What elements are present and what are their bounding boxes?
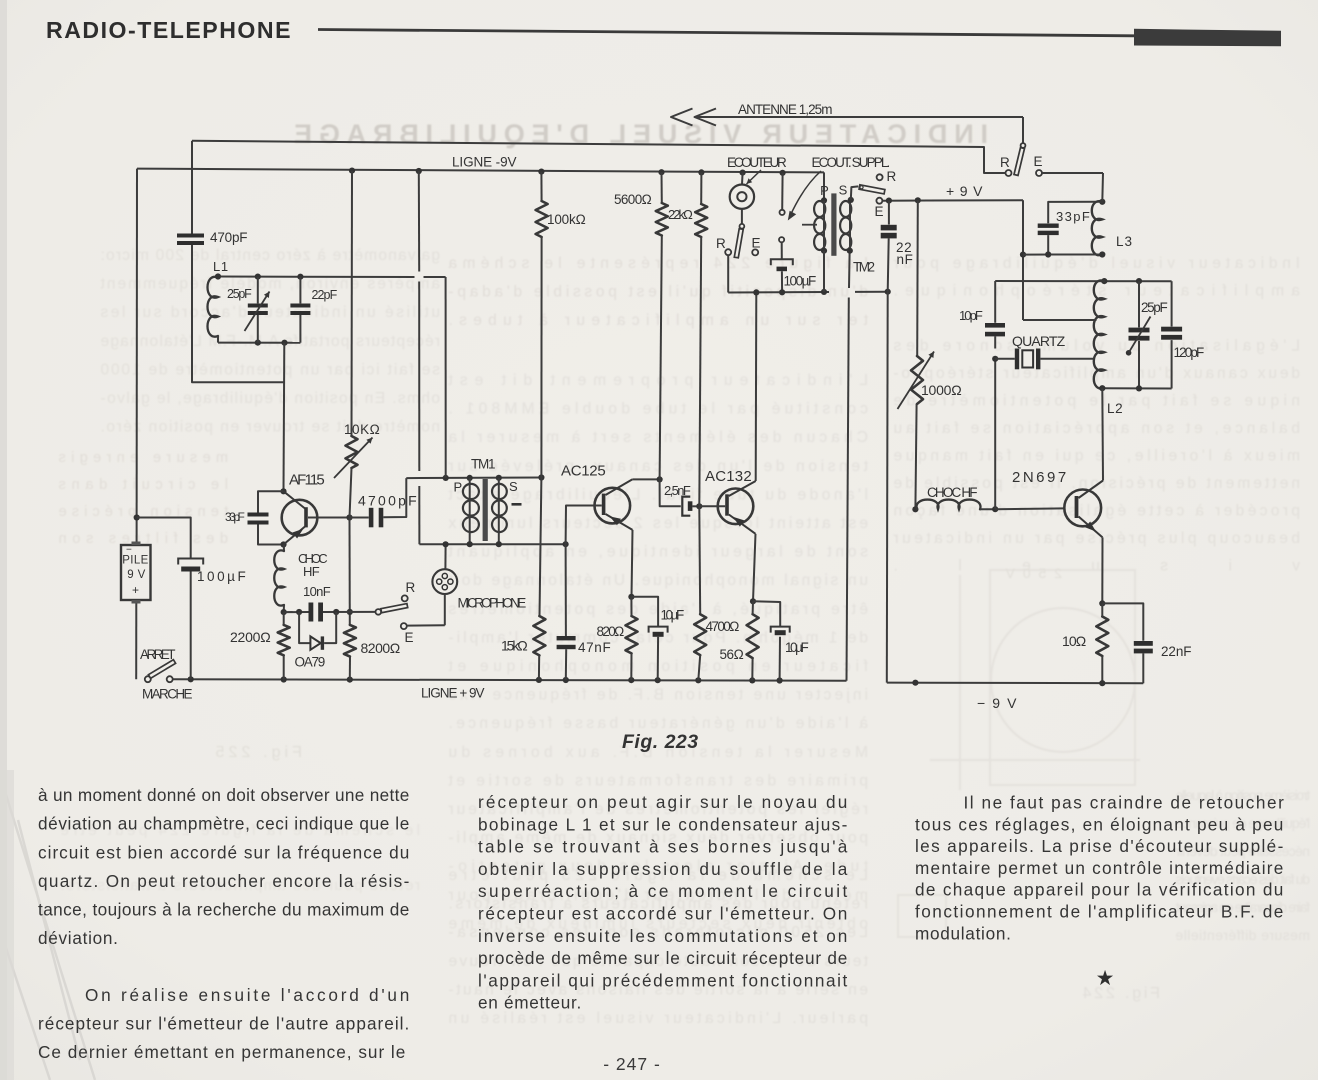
wire 33pF2 lower (1047, 235, 1049, 254)
svg-text:★: ★ (1096, 967, 1115, 990)
svg-text:R: R (1000, 155, 1010, 170)
switch S3 blade (381, 604, 408, 613)
node rail/ecouteur (740, 170, 746, 176)
resistor 10Ω (1096, 617, 1108, 657)
node L2 top (1101, 278, 1107, 284)
switch S1 contact R (1006, 170, 1012, 176)
wire 2200 bottom (283, 655, 285, 679)
node tank top 25pF (255, 274, 261, 280)
node tank bottom drop (281, 340, 287, 346)
capacitor 10µF no2 (771, 627, 790, 633)
node L2 bottom (1099, 385, 1105, 391)
jack contact upper (780, 210, 785, 215)
wire 22nF1 bottom lead (888, 238, 889, 291)
wire 25pF top lead (257, 277, 259, 304)
wire quartz left lead (995, 358, 1015, 360)
svg-text:10nF: 10nF (303, 584, 331, 599)
svg-text:Il ne faut pas craindre d: Il ne faut pas craindre de retoucher (964, 793, 1285, 813)
capacitor 47nF (557, 636, 576, 640)
node rail+/56 (749, 677, 755, 683)
node diode left (296, 609, 302, 615)
svg-text:un signal monophonique. Un: un signal monophonique. Un étalonnage do… (448, 572, 868, 589)
wire 47nF bottom (565, 649, 567, 680)
diode OA79 (310, 636, 320, 649)
wire 5600 lower (660, 236, 662, 480)
wire 2N697 emitter lead (1101, 537, 1103, 603)
node tank top 22pF (297, 274, 303, 280)
node TM1 top/vertB (443, 475, 449, 481)
svg-text:l'appareil qui précédemmen: l'appareil qui précédemment fonctionnait (478, 970, 848, 990)
svg-text:4700Ω: 4700Ω (706, 619, 740, 634)
switch S3 pivot (376, 609, 382, 615)
wire L2 bottom rail (1102, 387, 1171, 389)
svg-text:+ 9 V: + 9 V (946, 183, 983, 199)
node tank bottom 25pF (255, 340, 261, 346)
svg-text:Ce dernier émettant en permane: Ce dernier émettant en permanence, sur l… (38, 1042, 406, 1062)
svg-text:Fig. 223: Fig. 223 (622, 731, 699, 753)
node rail+/10uF2 (777, 677, 783, 683)
switch S4 contact a (145, 676, 151, 682)
node AF115 collector (280, 488, 286, 494)
switch S2 blade (734, 229, 743, 258)
switch S1 contact E (1036, 170, 1042, 176)
wire 10K from rail (351, 171, 354, 436)
wire 47nF top (565, 544, 567, 636)
node rail/vertA (416, 168, 422, 174)
node rail/5600 (658, 169, 664, 175)
node AC125 coll/5600 (657, 476, 663, 482)
wire 4700pF to TM1 corner (383, 478, 406, 517)
wire 100k upper (540, 172, 542, 201)
svg-text:se fait ici par un potent: se fait ici par un potentiomètre de 1000 (100, 361, 440, 378)
node TM1 bot/S (496, 541, 502, 547)
wire 100k mid (540, 237, 542, 478)
resistor 10KΩ (346, 436, 358, 468)
wire TM1 bottom rail (419, 543, 565, 545)
wire 25pF bottom lead (257, 315, 259, 343)
svg-text:AC132: AC132 (705, 468, 752, 485)
svg-text:8200Ω: 8200Ω (361, 640, 401, 656)
svg-text:On réalise ensuite l'accord: On réalise ensuite l'accord d'un (85, 985, 410, 1005)
svg-text:TM2: TM2 (853, 260, 876, 275)
wire left drop to C1 (191, 141, 193, 234)
svg-text:ter sur un amplificateur à: ter sur un amplificateur à tubes. (448, 312, 868, 329)
wire 22pF bottom lead (299, 315, 301, 343)
switch S2 contact E (752, 249, 758, 255)
node TM2 P top (821, 197, 827, 203)
wire mid rail segment1 (728, 291, 829, 294)
svg-text:galvanomètre à zéro central de: galvanomètre à zéro central de 200 micro… (100, 247, 440, 264)
node AC132 emitter (750, 598, 756, 604)
switch S2 pivot (740, 224, 745, 229)
svg-text:+: + (132, 583, 140, 597)
svg-text:470pF: 470pF (210, 230, 248, 245)
svg-text:obtenir la suppression du: obtenir la suppression du souffle de la (478, 859, 848, 879)
wire E to microphone (407, 624, 445, 626)
svg-text:superréaction; à ce mome: superréaction; à ce moment le circuit (478, 881, 848, 901)
svg-text:RADIO-TELEPHONE: RADIO-TELEPHONE (46, 17, 292, 43)
svg-text:P: P (454, 480, 463, 495)
wire antenna to corner (695, 116, 1023, 118)
wire 4700 top (698, 506, 701, 614)
net +9V rail (882, 199, 1023, 202)
node 10nF left (281, 609, 287, 615)
wire jack drop (781, 173, 783, 210)
node quartz/10pF (992, 356, 998, 362)
svg-text:tous ces réglages, en éloi: tous ces réglages, en éloignant peu à pe… (915, 814, 1284, 834)
svg-text:P: P (820, 183, 829, 198)
svg-text:33pF: 33pF (225, 510, 245, 524)
wire 15k bottom (538, 655, 540, 680)
capacitor 22nF no1 (881, 225, 897, 231)
svg-text:E: E (405, 630, 415, 645)
wire AC125 base (566, 506, 602, 545)
capacitor 120pF (1161, 327, 1182, 332)
wire rail+ up to TM2 S upper (848, 253, 851, 288)
svg-text:120pF: 120pF (1174, 345, 1205, 360)
wire battery to switch (135, 604, 137, 680)
node mid rail/-9Vdrop (885, 289, 891, 295)
transformer TM2 P winding (814, 201, 825, 217)
header black bar (1134, 29, 1281, 47)
node 25pF2 bottom (1136, 385, 1142, 391)
svg-text:− 9 V: − 9 V (977, 695, 1017, 711)
transistor AC125 (595, 488, 631, 524)
resistor 5600Ω (656, 203, 668, 236)
switch S4 blade (148, 660, 175, 679)
svg-text:ECOUTEUR: ECOUTEUR (727, 155, 787, 170)
wire L2 to collector (1101, 388, 1104, 480)
capacitor 25pF no2 (1129, 328, 1150, 333)
wire 33pF2 branch (1048, 202, 1102, 224)
svg-text:H F: H F (303, 564, 320, 579)
svg-text:10pF: 10pF (959, 308, 983, 323)
pot arrow 1000 (898, 352, 935, 410)
svg-text:22pF: 22pF (312, 288, 338, 302)
wire 5600 upper (661, 172, 663, 203)
wire 22pF top lead (299, 277, 301, 304)
wire 10Ω top (1101, 603, 1103, 616)
node rail/jack (780, 170, 786, 176)
svg-text:TM1: TM1 (471, 457, 497, 472)
wire 8200 top (349, 518, 351, 625)
earphone ECOUTEUR (730, 185, 754, 209)
crystal QUARTZ (1015, 349, 1019, 370)
wire pot upper (916, 200, 919, 356)
svg-text:circuit est bien accordé sur l: circuit est bien accordé sur la fréquenc… (38, 842, 410, 862)
svg-text:100µF: 100µF (784, 274, 817, 289)
net LIGNE +9V rail (173, 679, 847, 680)
resistor 8200Ω (344, 625, 356, 657)
node TM1 bot/mic (443, 541, 449, 547)
pot arrow 10K (334, 438, 373, 479)
wire AC125 emitter lead (632, 530, 633, 597)
svg-text:ohms. En position d'équilib: ohms. En position d'équilibrage, le galv… (100, 390, 440, 407)
coil CHOC HF no2 (917, 500, 981, 510)
svg-text:déviation au champmètre, ceci: déviation au champmètre, ceci indique qu… (38, 814, 410, 834)
node rail+/8200 (347, 677, 353, 683)
TM1 polarity dash (512, 503, 522, 506)
wire earphone to pivot (741, 209, 743, 224)
svg-text:E: E (752, 236, 762, 251)
svg-text:2,5nF: 2,5nF (664, 483, 691, 498)
header rule (318, 30, 1134, 36)
svg-text:mentaire permet un contrôle: mentaire permet un contrôle intermédiair… (915, 858, 1284, 878)
capacitor 22pF (290, 304, 310, 308)
switch S5 pivot hole (860, 186, 863, 189)
svg-text:10KΩ: 10KΩ (344, 422, 380, 437)
transformer TM1 core (483, 479, 488, 541)
wire L2 top rail (995, 280, 1171, 282)
svg-text:R: R (406, 580, 416, 595)
wire mic bottom (444, 594, 446, 625)
svg-text:LIGNE -9V: LIGNE -9V (452, 155, 517, 170)
wire vertA mid (418, 282, 420, 472)
svg-text:nomètre doit se trouver en: nomètre doit se trouver en position zéro… (100, 419, 440, 436)
wire quartz right lead (1040, 358, 1095, 360)
node 25pF top (1136, 278, 1142, 284)
wire 820 bottom (630, 653, 632, 680)
wire TM2 P top lead (823, 172, 825, 200)
node tank top L1 (215, 273, 221, 279)
svg-text:les appareils. La prise d': les appareils. La prise d'écouteur suppl… (915, 836, 1284, 856)
wire 15k upper (540, 478, 542, 617)
svg-text:E: E (875, 204, 885, 219)
callout arrow ecouteur (747, 170, 762, 184)
svg-text:25pF: 25pF (1141, 300, 1168, 315)
wire mic top (444, 544, 446, 569)
wire TM1 top rail (406, 477, 541, 480)
svg-text:15kΩ: 15kΩ (501, 638, 528, 654)
node AC125 emitter/820 (628, 594, 634, 600)
wire 100uF1 to rail (190, 572, 192, 680)
node TM1 top/P (467, 475, 473, 481)
wire 120pF top (1171, 281, 1173, 326)
wire tank to AF115 collector (283, 343, 286, 492)
node rail+/2200 (281, 676, 287, 682)
svg-text:L1: L1 (213, 259, 229, 274)
wire +9V drop (1022, 200, 1024, 320)
node 2N697 base node (992, 506, 998, 512)
node L3 rail/+9V (1020, 252, 1026, 258)
wire 10uF1 bottom (657, 637, 659, 680)
wire 22nF1 top lead (888, 201, 890, 225)
resistor 1000Ω pot (911, 356, 923, 404)
wire tank bottom rail (218, 342, 300, 344)
transistor 2N697 (1064, 490, 1101, 527)
svg-text:100µF: 100µF (197, 569, 246, 584)
svg-text:déviation.: déviation. (38, 928, 119, 948)
node base/10K junction (346, 514, 352, 520)
wire +9V tap to L2 (1023, 319, 1097, 321)
transistor AC132 (718, 489, 754, 525)
wire left border (136, 169, 138, 545)
transformer TM1 P winding (463, 484, 479, 499)
svg-text:à l'aide d'un générateur b: à l'aide d'un générateur basse fréquence… (448, 715, 868, 732)
svg-text:820Ω: 820Ω (597, 624, 625, 639)
node +9V/22nF (886, 198, 892, 204)
wire rail+ up to TM2 S lower (847, 298, 849, 681)
svg-text:nF: nF (897, 252, 914, 267)
node border/100uF (134, 514, 140, 520)
node 10nF rail/8200 (347, 609, 353, 615)
wire 10uF2 branch (753, 601, 780, 626)
switch S2 contact R (725, 249, 731, 255)
svg-text:5600Ω: 5600Ω (614, 192, 652, 207)
battery PILE 9V (121, 545, 151, 600)
node choke left (912, 506, 918, 512)
node -9V/pot (912, 680, 918, 686)
wire L1 bottom stub (217, 336, 219, 343)
node rail/22k (698, 169, 704, 175)
wire 22k lower / base drop (700, 172, 702, 204)
coil L3 (1092, 201, 1103, 255)
node TM1 top/100k (538, 474, 544, 480)
svg-text:PILE: PILE (122, 555, 149, 567)
svg-text:E: E (1034, 154, 1044, 169)
switch S3 contact E (401, 623, 407, 629)
wire pot lower (915, 404, 916, 509)
svg-text:10µF: 10µF (785, 640, 809, 655)
wire 56 top (752, 601, 754, 614)
svg-text:injecter une tension B.F.: injecter une tension B.F. de fréquence f… (448, 687, 868, 704)
wire vertA upper (418, 171, 420, 272)
svg-text:procède de même sur le circuit: procède de même sur le circuit récepteur… (478, 948, 848, 968)
node diode right (333, 609, 339, 615)
transistor AF115 (282, 500, 318, 536)
node rail+/10uF1 (655, 677, 661, 683)
wire S top to pivot (851, 186, 859, 200)
wire 22nF2 branch (1102, 603, 1143, 640)
svg-text:CHOC HF: CHOC HF (927, 485, 978, 500)
svg-text:mesure différentielle: mesure différentielle (1175, 927, 1310, 943)
svg-text:2N697: 2N697 (1012, 469, 1067, 486)
wire TM2 P tap stub (802, 224, 817, 226)
wire 820 top (630, 597, 632, 616)
svg-text:25pF: 25pF (227, 287, 252, 301)
capacitor 10pF (985, 323, 1005, 328)
capacitor 2,5nF (682, 497, 690, 516)
svg-text:table se trouvant à ses b: table se trouvant à ses bornes jusqu'à (478, 837, 848, 857)
node AF115 emitter (280, 541, 286, 547)
wire 33pF1 to emitter node (258, 525, 284, 545)
svg-text:bobinage L 1 et sur le co: bobinage L 1 et sur le condensateur ajus… (478, 814, 848, 834)
wire C1 to tank corner (192, 245, 284, 382)
svg-text:R: R (887, 169, 897, 184)
svg-text:récepteur est accordé sur: récepteur est accordé sur l'émetteur. On (478, 904, 848, 924)
wire 25pF2 bottom lead (1138, 341, 1140, 388)
wire 2.5nF to base node (692, 505, 699, 507)
svg-text:de chaque appareil pour la: de chaque appareil pour la vérification … (915, 880, 1284, 900)
capacitor 25pF trimmer (248, 304, 268, 308)
resistor 56Ω (747, 614, 759, 658)
svg-text:récepteur sur l'émetteur de l': récepteur sur l'émetteur de l'autre appa… (38, 1014, 410, 1034)
svg-text:- 247 -: - 247 - (603, 1054, 661, 1074)
svg-text:2200Ω: 2200Ω (230, 629, 271, 645)
resistor 820Ω (626, 616, 638, 653)
svg-text:1000Ω: 1000Ω (921, 382, 962, 398)
wire choke2 to base node (980, 508, 995, 510)
coil L1 (208, 277, 219, 337)
svg-text:10Ω: 10Ω (1062, 633, 1087, 649)
svg-text:tance, toujours à la recherche: tance, toujours à la recherche du maximu… (38, 900, 410, 920)
wire 2200 top (283, 612, 285, 625)
wire antenna drop (1022, 117, 1024, 144)
wire 100uF2 bottom (781, 271, 783, 292)
jack contact lower (779, 237, 784, 242)
wire AC132 collector lead (755, 293, 758, 481)
node rail/10K (349, 168, 355, 174)
svg-text:ARRET: ARRET (140, 647, 176, 662)
wire emitter stub (283, 545, 285, 552)
node rail+/47nF (563, 677, 569, 683)
trimmer arrow 25pF (245, 292, 270, 332)
svg-text:en émetteur.: en émetteur. (478, 993, 582, 1013)
svg-text:à un moment donné on doit obse: à un moment donné on doit observer une n… (38, 785, 410, 805)
wire L3 bottom rail (1023, 254, 1102, 256)
wire diode loop right (324, 612, 336, 643)
wire vertB from L1 rail (445, 277, 447, 478)
wire 22nF2 bottom (1142, 653, 1144, 683)
svg-text:22kΩ: 22kΩ (668, 207, 693, 222)
capacitor 10nF (309, 603, 314, 622)
node mid rail/AC132 (753, 289, 759, 295)
node emitter/10Ω (1099, 600, 1105, 606)
wire 25pF2 top lead (1138, 281, 1140, 327)
svg-text:100kΩ: 100kΩ (547, 212, 586, 227)
wire E contact to L3 (1042, 172, 1103, 174)
wire AC125 collector lead (632, 478, 659, 480)
net LIGNE -9V rail (137, 169, 824, 173)
node rail+/100uF (188, 676, 194, 682)
wire base node to 2N697 (995, 507, 1064, 510)
svg-text:L 3: L 3 (1116, 234, 1133, 249)
node 33pF2 bottom (1045, 251, 1051, 257)
wire vertA lower (418, 486, 420, 544)
capacitor 470pF (177, 234, 204, 238)
node TM2 S bottom (847, 248, 853, 254)
wire 10nF rail right (323, 611, 376, 613)
capacitor 10µF no1 (649, 627, 668, 633)
svg-text:22nF: 22nF (1161, 644, 1192, 659)
svg-text:AC125: AC125 (561, 463, 606, 480)
wire tank top rail segment2 (424, 276, 446, 278)
capacitor 100uF electrolytic (178, 559, 203, 565)
resistor 100kΩ (536, 201, 548, 237)
svg-text:balance, et son appréciatio: balance, et son appréciation se fait au (893, 420, 1300, 437)
svg-text:ANTENNE 1,25m: ANTENNE 1,25m (738, 102, 833, 117)
svg-text:S: S (839, 183, 848, 198)
resistor 15kΩ (533, 616, 545, 655)
switch S5 contact R (877, 174, 883, 180)
wire diode loop left (299, 612, 310, 643)
node rail+/15k (536, 677, 542, 683)
wire AC132 base lead (699, 505, 725, 507)
node mid rail/100uF2 (779, 289, 785, 295)
wire L3 top feed (1101, 173, 1104, 202)
transformer TM1 S winding (492, 484, 507, 499)
svg-text:utilisé un indicateur d'acc: utilisé un indicateur d'accord sur les (100, 304, 440, 321)
wire 8200 bottom (349, 657, 351, 680)
resistor 4700Ω (694, 614, 706, 655)
wire jack lower lead (781, 242, 783, 259)
node rail+/820 (628, 677, 634, 683)
node -9V/10Ω (1099, 680, 1105, 686)
wire R contact to corner (192, 141, 1005, 173)
capacitor 100µF no2 (771, 259, 793, 265)
svg-text:S: S (509, 479, 518, 494)
capacitor 4700pF (369, 508, 374, 528)
